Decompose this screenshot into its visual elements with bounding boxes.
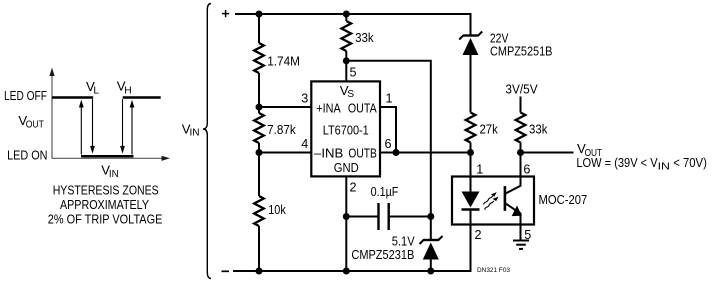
svg-text:OUT: OUT	[26, 119, 45, 130]
svg-text:< 70V): < 70V)	[673, 155, 707, 170]
arrow VH up	[130, 100, 135, 155]
node 27k / opto pin1	[467, 149, 474, 156]
wire 3V/5V stub	[520, 97, 522, 113]
ground	[513, 241, 529, 249]
svg-text:3V/5V: 3V/5V	[505, 82, 537, 97]
svg-text:APPROXIMATELY: APPROXIMATELY	[60, 197, 149, 212]
wire pin4	[259, 152, 311, 154]
wire opto pin6	[520, 153, 522, 177]
svg-text:IN: IN	[190, 128, 200, 139]
svg-text:6: 6	[523, 163, 530, 177]
svg-text:MOC-207: MOC-207	[539, 192, 588, 207]
x axis	[52, 157, 165, 159]
node cap / zener	[427, 213, 434, 220]
svg-text:2: 2	[350, 181, 357, 195]
svg-text:2% OF TRIP VOLTAGE: 2% OF TRIP VOLTAGE	[48, 212, 163, 227]
waveform low segment	[81, 155, 134, 158]
resistor R 10k	[254, 153, 286, 272]
wire bottom rail	[233, 225, 471, 272]
wire opto pin5	[520, 225, 522, 241]
svg-text:LOW = (39V < V: LOW = (39V < V	[576, 155, 657, 170]
svg-text:LED ON: LED ON	[7, 148, 47, 163]
waveform high segment left	[52, 96, 93, 99]
svg-text:+INA: +INA	[316, 101, 341, 116]
svg-text:GND: GND	[334, 160, 359, 175]
node top rail / 1.74M	[256, 11, 263, 18]
plus terminal	[222, 10, 229, 17]
wire pin3	[259, 106, 311, 108]
svg-text:S: S	[347, 89, 354, 100]
svg-text:H: H	[124, 85, 131, 96]
svg-text:0.1µF: 0.1µF	[371, 184, 399, 199]
svg-text:CMPZ5231B: CMPZ5231B	[351, 247, 414, 262]
node OUTA-OUTB join	[393, 149, 400, 156]
svg-text:OUTB: OUTB	[348, 146, 377, 161]
svg-text:4: 4	[301, 137, 308, 151]
svg-text:1.74M: 1.74M	[267, 53, 300, 68]
resistor R 33k right	[516, 113, 548, 153]
phototransistor inside opto	[505, 177, 522, 225]
svg-text:6: 6	[385, 137, 392, 151]
capacitor C 0.1uF	[346, 184, 431, 230]
zener D 5.1V CMPZ5231B	[351, 217, 442, 272]
arrow VH down	[120, 99, 125, 154]
wire pin5	[345, 61, 347, 82]
svg-text:3: 3	[301, 92, 308, 106]
optocoupler U2 MOC-207 box	[452, 177, 534, 225]
node VS	[343, 57, 350, 64]
photon arrows	[482, 191, 498, 206]
node bottom rail / zener	[427, 268, 434, 275]
wire opto pin1	[470, 153, 472, 177]
resistor R 27k	[466, 113, 498, 153]
node top rail / 33k	[343, 11, 350, 18]
svg-text:HYSTERESIS ZONES: HYSTERESIS ZONES	[53, 182, 159, 197]
svg-text:CMPZ5251B: CMPZ5251B	[490, 44, 553, 59]
svg-text:5: 5	[350, 66, 357, 80]
resistor R 33k top	[342, 14, 375, 61]
resistor R 1.74M	[254, 14, 300, 107]
wire VS node to bypass column	[346, 61, 431, 217]
y axis	[51, 74, 53, 158]
svg-text:7.87k: 7.87k	[267, 122, 296, 137]
minus terminal	[222, 270, 230, 272]
svg-text:IN: IN	[658, 162, 670, 173]
wire pin6 OUTB	[380, 152, 471, 154]
op-amp U1 LT6700-1 box	[311, 81, 380, 176]
svg-text:33k: 33k	[355, 30, 374, 45]
svg-text:1: 1	[476, 163, 483, 177]
svg-text:1: 1	[386, 92, 393, 106]
svg-text:DN321 F03: DN321 F03	[477, 267, 511, 274]
svg-text:OUTA: OUTA	[348, 101, 377, 116]
svg-text:LT6700-1: LT6700-1	[323, 123, 369, 138]
arrow VL up	[79, 100, 84, 155]
svg-text:LED OFF: LED OFF	[4, 88, 47, 103]
zener D 22V CMPZ5251B	[459, 30, 552, 112]
wire pin1 OUTA	[380, 107, 396, 153]
brace VIN	[203, 4, 211, 279]
svg-text:2: 2	[475, 228, 482, 242]
svg-text:IN: IN	[109, 169, 119, 180]
svg-text:33k: 33k	[529, 121, 548, 136]
node bottom rail / GND	[343, 268, 350, 275]
svg-text:L: L	[93, 86, 99, 97]
wire pin2 GND	[345, 176, 347, 271]
svg-text:–INB: –INB	[314, 146, 343, 161]
node GND / cap	[343, 213, 350, 220]
svg-text:27k: 27k	[480, 121, 499, 136]
LED inside opto	[462, 177, 480, 225]
node +INA divider	[256, 104, 263, 111]
svg-text:10k: 10k	[268, 202, 286, 217]
resistor R 7.87k	[254, 107, 296, 153]
node 33k / opto pin6	[517, 149, 524, 156]
node bottom rail / 10k	[256, 268, 263, 275]
waveform high segment right	[123, 96, 161, 99]
arrow VL down	[90, 99, 95, 154]
node -INB divider	[256, 149, 263, 156]
wire VOUT	[521, 152, 574, 154]
wire top rail	[235, 14, 471, 36]
